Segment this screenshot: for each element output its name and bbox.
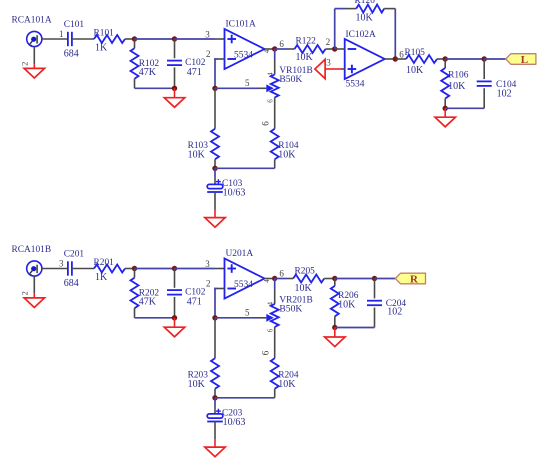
svg-text:B50K: B50K [279,304,302,315]
ground [164,98,184,108]
svg-text:IC101A: IC101A [226,20,256,30]
junction [332,325,337,330]
junction [332,276,337,281]
svg-text:471: 471 [187,296,202,307]
svg-text:2: 2 [326,37,331,47]
wire [72,38,94,40]
wire [214,168,216,177]
svg-text:6: 6 [261,121,271,126]
wire [42,268,68,270]
svg-text:10/63: 10/63 [223,188,246,199]
wire [334,9,336,49]
junction [172,315,177,320]
port R [395,273,425,284]
junction [332,46,337,51]
resistor R204 [271,358,279,389]
junction [372,276,377,281]
wire [275,48,287,50]
capacitor C204 [374,279,376,299]
svg-text:RCA101A: RCA101A [12,16,52,26]
wire [375,278,396,280]
svg-text:10/63: 10/63 [223,417,246,428]
wire [33,276,35,294]
svg-text:6: 6 [279,269,284,279]
wire [215,317,259,319]
wire [335,327,375,329]
wire [42,38,68,40]
op-amp U201A [225,259,265,299]
junction [443,106,448,111]
wire [125,38,135,40]
junction [172,86,177,91]
svg-text:102: 102 [387,306,402,317]
svg-text:RCA101B: RCA101B [12,245,52,255]
svg-text:10K: 10K [406,65,424,76]
svg-text:R105: R105 [405,48,426,58]
op-amp IC102A [345,39,385,79]
connector RCA101B [27,261,42,276]
svg-text:1K: 1K [95,43,108,54]
svg-text:47K: 47K [139,67,157,78]
junction [212,166,217,171]
svg-text:6: 6 [266,99,274,103]
ground [24,298,44,308]
svg-text:1: 1 [59,29,64,39]
wire [325,68,341,70]
capacitor C103 [207,184,223,188]
resistor R122 [295,45,326,53]
ground [325,337,345,347]
resistor R101 [94,35,125,43]
svg-text:10K: 10K [295,283,313,294]
resistor R202 [134,269,136,278]
ground [205,218,225,228]
svg-text:47K: 47K [139,297,157,308]
resistor R103 [211,129,219,160]
svg-text:3: 3 [326,58,331,68]
wire [217,58,225,60]
wire [135,268,175,270]
wire [214,318,216,359]
svg-text:10K: 10K [338,300,356,311]
wire [175,268,215,270]
junction [272,276,277,281]
resistor R203 [211,358,219,389]
junction [482,56,487,61]
junction [272,46,277,51]
svg-text:2: 2 [19,62,29,66]
wire [175,38,215,40]
resistor R205 [293,275,324,283]
resistor R206 [334,279,336,286]
resistor R126 [356,5,384,13]
svg-text:10K: 10K [188,150,206,161]
svg-text:1K: 1K [95,272,108,283]
wire [274,97,276,128]
wire [445,107,484,109]
wire [335,48,345,50]
junction [172,36,177,41]
ground [164,327,184,337]
wire [334,328,336,338]
svg-text:R122: R122 [296,36,317,46]
potentiometer VR201B [271,304,279,327]
svg-text:3: 3 [59,259,64,269]
svg-text:10K: 10K [278,150,296,161]
wire [385,58,396,60]
resistor R105 [406,55,437,63]
junction [212,395,217,400]
wire [135,317,175,319]
wire [217,288,225,290]
capacitor C203 [207,414,223,418]
svg-text:U201A: U201A [226,249,254,259]
svg-text:R126: R126 [355,0,376,6]
svg-text:R106: R106 [448,71,469,81]
wire [384,8,395,10]
wire [324,278,335,280]
wire [125,268,135,270]
svg-text:471: 471 [187,67,202,78]
junction [212,86,217,91]
svg-text:10K: 10K [356,12,374,23]
capacitor C102 [174,269,176,288]
junction [172,266,177,271]
wire [214,398,216,407]
svg-text:4: 4 [263,279,271,283]
wire [214,88,216,129]
svg-text:2: 2 [206,49,211,59]
junction [443,56,448,61]
junction [132,266,137,271]
wire [444,108,446,117]
svg-text:3: 3 [205,29,210,39]
svg-text:10K: 10K [296,52,314,63]
wire [265,278,275,280]
resistor R201 [94,265,125,273]
svg-text:L: L [521,54,528,66]
wire [135,87,175,89]
wire [174,318,176,327]
svg-text:5: 5 [245,78,250,88]
wire [275,278,287,280]
junction [393,56,398,61]
svg-text:5: 5 [245,307,250,317]
port L [506,54,536,65]
wire [215,167,275,169]
op-amp IC101A [225,29,265,69]
wire [214,192,216,210]
capacitor C201 [67,261,69,275]
wire [484,58,506,60]
svg-text:R201: R201 [94,258,115,268]
capacitor C101 [67,32,69,46]
wire [326,48,335,50]
svg-text:10K: 10K [188,379,206,390]
capacitor C102 [174,39,176,58]
svg-text:R101: R101 [94,28,115,38]
wire [335,278,375,280]
wire [395,58,406,60]
wire [445,58,484,60]
resistor R102 [134,39,136,48]
svg-text:IC102A: IC102A [346,30,376,40]
svg-text:B50K: B50K [279,74,302,85]
svg-text:102: 102 [497,89,512,100]
junction [212,315,217,320]
svg-text:4: 4 [263,49,271,53]
wire [135,38,175,40]
wire [274,159,276,168]
svg-text:5534: 5534 [346,79,365,89]
wire [274,327,276,358]
wire [274,389,276,398]
potentiometer VR101B [271,74,279,97]
ground [205,447,225,457]
svg-text:10K: 10K [448,81,466,92]
svg-text:6: 6 [266,328,274,332]
wire [72,268,94,270]
wire [265,48,275,50]
wire [33,47,35,65]
svg-text:R205: R205 [295,266,316,276]
ground [24,68,44,78]
svg-text:R: R [410,273,419,285]
svg-text:5534: 5534 [234,280,253,290]
capacitor C104 [483,59,485,79]
wire [215,397,275,399]
wire [214,422,216,440]
svg-text:5534: 5534 [234,50,253,60]
svg-text:C101: C101 [64,20,85,30]
wire [214,389,216,398]
connector RCA101A [27,31,42,46]
resistor R106 [444,59,446,68]
junction [132,36,137,41]
svg-text:2: 2 [19,291,29,295]
wire [174,88,176,97]
svg-text:10K: 10K [278,379,296,390]
svg-text:684: 684 [64,278,79,289]
resistor R104 [271,129,279,160]
ground [315,59,325,78]
svg-text:6: 6 [279,39,284,49]
wire [274,49,276,60]
wire [437,58,445,60]
svg-text:2: 2 [206,279,211,289]
svg-text:C201: C201 [64,250,85,260]
svg-text:684: 684 [64,48,79,59]
wire [215,87,259,89]
ground [435,117,455,127]
wire [214,159,216,168]
svg-text:6: 6 [261,350,271,355]
wire [274,279,276,290]
svg-text:3: 3 [205,259,210,269]
